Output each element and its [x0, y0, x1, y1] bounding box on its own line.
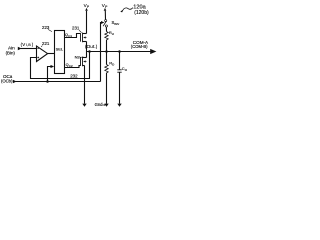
wire SEL to Qc2 gate: [65, 66, 81, 68]
wire switch control stub: [100, 23, 103, 82]
svg-text:(Bin): (Bin): [6, 51, 16, 56]
wire Ain to op-amp: [21, 48, 37, 50]
transistor Qc1: [81, 33, 87, 43]
input Ain (Bin) label: [6, 45, 16, 55]
arrowhead into SEL: [51, 65, 55, 68]
wire capacitor to ground: [119, 72, 121, 103]
label 221: [42, 41, 50, 46]
Qc2 body arrowhead: [83, 60, 85, 62]
output wire to COM-A: [87, 51, 151, 53]
output arrowhead COM-A: [150, 49, 156, 54]
svg-text:221: 221: [42, 41, 50, 46]
label (Out.): [85, 44, 98, 49]
leader arrowhead 120a: [120, 9, 124, 12]
wire VP left down to Qc1: [86, 11, 88, 34]
svg-text:SEL: SEL: [56, 47, 64, 52]
wire Ru to output node: [106, 40, 108, 52]
leader 223: [48, 29, 52, 31]
wire VP right down to switch: [104, 11, 106, 20]
svg-text:D: D: [112, 62, 115, 66]
svg-text:(Out.): (Out.): [85, 44, 98, 49]
svg-text:(120b): (120b): [134, 10, 149, 16]
wire Qc2 source to ground: [84, 66, 86, 104]
ground arrow (Co): [117, 104, 121, 107]
wire Qc1 drain to output wire: [86, 42, 88, 52]
wire SEL to Qc1 gate: [65, 34, 81, 38]
input arrowhead Ain: [18, 47, 22, 50]
wire output node down to Rd: [106, 52, 108, 65]
switch label S INV: [112, 20, 120, 26]
label COM-A (COM-B): [131, 40, 149, 49]
wire op-amp output to SEL: [48, 53, 55, 55]
label 120a (120b) figure reference: [133, 5, 149, 16]
Gnd leader arrow: [103, 104, 105, 106]
resistor Rd: [105, 65, 108, 73]
svg-text:P: P: [105, 5, 108, 9]
op-amp 221: [37, 46, 48, 62]
block SEL: [55, 31, 65, 74]
wire output wire down to Qc2 drain: [86, 52, 88, 58]
leader N2: [80, 56, 84, 58]
svg-text:): ): [32, 42, 34, 47]
VP arrow (right): [104, 8, 107, 11]
node dot Ru/output: [105, 50, 108, 53]
label Ru: [109, 30, 114, 36]
VP arrow (left): [85, 8, 88, 11]
wire OCa branch up to SEL: [48, 67, 51, 82]
label Rd: [109, 60, 115, 66]
svg-text:I,B: I,B: [26, 43, 31, 47]
label (VI,B) on input wire: [21, 42, 34, 47]
svg-text:P: P: [87, 5, 90, 9]
wire output node down to capacitor: [119, 52, 121, 70]
svg-text:Ain: Ain: [8, 45, 15, 50]
svg-text:223: 223: [42, 25, 50, 30]
svg-text:232: 232: [70, 73, 78, 78]
switch S (pull-up enable): [103, 20, 107, 28]
wire Rd to ground: [106, 73, 108, 104]
label 231: [72, 26, 80, 31]
Qc1 body arrowhead: [83, 36, 85, 38]
label N2: [75, 54, 81, 59]
transistor Qc2: [81, 57, 87, 67]
svg-text:231: 231: [72, 26, 80, 31]
capacitor Co: [117, 70, 121, 72]
svg-text:O: O: [125, 68, 128, 72]
label 232: [70, 73, 78, 78]
op-amp minus marker: [37, 48, 39, 50]
leader 231: [79, 30, 82, 32]
ground arrow (Rd): [104, 104, 108, 107]
node dot output/capacitor: [118, 50, 121, 53]
ground arrow (Qc2): [82, 104, 86, 107]
svg-text:(OCb): (OCb): [1, 79, 13, 84]
label Gnd: [95, 102, 104, 107]
node dot feedback/output: [88, 50, 91, 53]
node dot OCa/SEL branch: [46, 80, 49, 83]
power VP terminal (left, over Qc1): [84, 3, 90, 9]
label Qc2: [66, 63, 73, 68]
wire feedback: plus input to output node: [31, 52, 90, 79]
switch control arrowhead: [101, 21, 104, 24]
svg-text:(V: (V: [21, 42, 26, 47]
label Co: [122, 66, 128, 72]
label 223: [42, 25, 50, 30]
wire OCa to switch control: [16, 81, 101, 83]
input arrowhead OCa: [13, 80, 17, 83]
svg-text:N2: N2: [75, 54, 81, 59]
svg-text:U: U: [112, 32, 114, 36]
label SEL: [56, 47, 64, 52]
OCa (OCb) input label: [1, 74, 13, 84]
label Qc1: [65, 33, 72, 38]
power VP terminal (right, over switch): [102, 3, 108, 9]
wire switch to Ru: [105, 27, 107, 31]
leader 221: [41, 46, 42, 47]
svg-text:INV: INV: [114, 22, 119, 26]
op-amp plus marker: [37, 57, 39, 59]
leader squiggle to 120a: [123, 8, 133, 10]
resistor Ru: [105, 32, 108, 40]
svg-text:Gnd: Gnd: [95, 102, 104, 107]
svg-text:(COM-B): (COM-B): [131, 44, 148, 49]
